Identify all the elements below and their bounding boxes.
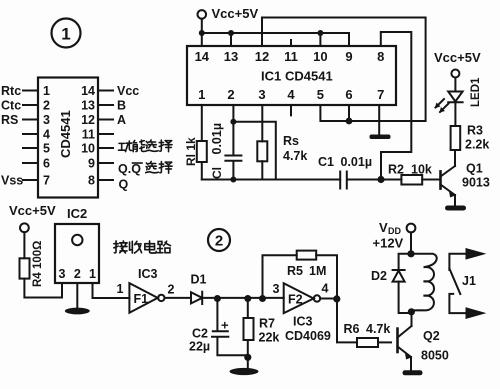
pinout signal labels Rtc Ctc RS Vss xyxy=(1,84,23,188)
label Q Qbar select xyxy=(118,162,141,176)
ground (IC1 pin7) xyxy=(370,135,391,140)
svg-text:22k: 22k xyxy=(259,331,280,345)
svg-text:11: 11 xyxy=(284,49,298,64)
circled numeral 2 xyxy=(208,229,230,251)
svg-text:Vcc+5V: Vcc+5V xyxy=(212,6,259,21)
ground (IC2 pin2) xyxy=(65,308,90,315)
resistor R2 xyxy=(381,163,439,185)
svg-text:IC2: IC2 xyxy=(67,206,87,221)
op IC1 CD4541 body xyxy=(187,46,396,105)
wire pin12 to pins 5,6 loop xyxy=(262,18,426,122)
svg-text:Ctc: Ctc xyxy=(1,99,21,113)
label jieshoudianlu (receiver circuit) xyxy=(114,241,171,253)
ground (Q2 emitter) xyxy=(403,370,423,375)
wire R1 bottom to rail xyxy=(201,162,203,180)
relay contact J1 xyxy=(449,249,484,319)
svg-text:5: 5 xyxy=(317,87,324,102)
Vcc+5V terminal (bottom left) xyxy=(9,203,56,232)
svg-text:R4: R4 xyxy=(32,272,44,287)
inverter F2 (IC3 CD4069) xyxy=(284,283,331,343)
svg-text:Rs: Rs xyxy=(283,134,299,148)
svg-text:R3: R3 xyxy=(467,124,483,138)
IC2 pin numbers 3 2 1 xyxy=(59,267,97,281)
svg-text:1: 1 xyxy=(117,282,124,296)
svg-text:2.2k: 2.2k xyxy=(465,138,489,152)
pinout pin numbers left 1-7 xyxy=(43,84,50,188)
circled numeral 1 xyxy=(52,19,81,48)
svg-text:10: 10 xyxy=(81,142,95,156)
junction dot relay top xyxy=(407,250,414,257)
svg-text:D1: D1 xyxy=(191,273,207,287)
svg-text:2: 2 xyxy=(168,283,175,297)
svg-text:12: 12 xyxy=(81,113,95,127)
svg-text:2: 2 xyxy=(43,99,50,113)
svg-text:C1: C1 xyxy=(318,155,334,169)
wire pin8 to R2 node xyxy=(381,32,412,180)
pinout right labels Vcc B A Q xyxy=(117,84,139,192)
ground (Q1 emitter) xyxy=(445,206,466,211)
svg-text:8: 8 xyxy=(377,49,384,64)
pinout pin numbers right 14-8 xyxy=(81,84,95,188)
svg-text:5: 5 xyxy=(43,142,50,156)
svg-text:9: 9 xyxy=(88,157,95,171)
svg-text:2: 2 xyxy=(74,267,81,281)
diode D1 xyxy=(191,273,207,305)
junction dot pin2 xyxy=(230,119,236,125)
svg-text:Vcc+5V: Vcc+5V xyxy=(434,50,481,65)
wire Rs bottom / bottom rail xyxy=(202,161,340,179)
svg-text:CD4069: CD4069 xyxy=(285,329,331,343)
svg-text:4.7k: 4.7k xyxy=(283,149,307,163)
svg-text:0.01µ: 0.01µ xyxy=(341,155,373,169)
svg-text:13: 13 xyxy=(81,99,95,113)
svg-text:V: V xyxy=(379,220,388,235)
svg-text:8: 8 xyxy=(88,174,95,188)
svg-text:CD4541: CD4541 xyxy=(285,69,333,84)
svg-text:R5: R5 xyxy=(287,264,303,278)
transistor Q2 xyxy=(398,312,449,371)
svg-text:9013: 9013 xyxy=(462,176,490,190)
pin labels 3 4 xyxy=(273,282,329,297)
svg-text:CD4541: CD4541 xyxy=(58,110,73,158)
resistor R3 xyxy=(451,124,490,152)
capacitor C2 electrolytic xyxy=(189,299,248,356)
wire pin3 to Rs xyxy=(261,105,263,141)
svg-text:14: 14 xyxy=(81,84,95,98)
resistor R7 xyxy=(244,299,280,358)
junction dot relay bottom xyxy=(408,308,415,315)
svg-text:1: 1 xyxy=(43,84,50,98)
svg-text:3: 3 xyxy=(43,113,50,127)
svg-text:Q: Q xyxy=(119,178,129,192)
svg-text:6: 6 xyxy=(43,157,50,171)
svg-text:22µ: 22µ xyxy=(189,340,210,354)
pinout right pin stubs xyxy=(98,91,113,181)
svg-text:8050: 8050 xyxy=(421,349,449,363)
LED1 xyxy=(436,77,483,126)
svg-text:1: 1 xyxy=(198,87,205,102)
svg-text:+12V: +12V xyxy=(373,236,404,251)
svg-text:IC1: IC1 xyxy=(261,69,281,84)
svg-text:9: 9 xyxy=(345,49,352,64)
wire pin1 to R1 xyxy=(201,105,203,141)
svg-text:F1: F1 xyxy=(134,292,149,306)
wire pin2 node xyxy=(233,105,275,180)
svg-text:Vss: Vss xyxy=(1,174,23,188)
svg-text:D2: D2 xyxy=(371,269,387,283)
wire VDD to relay top xyxy=(410,232,412,253)
inverter F1 (IC3) xyxy=(129,267,164,313)
Vcc+5V terminal (top middle) xyxy=(198,6,259,21)
junction dot F2 out xyxy=(333,295,340,302)
svg-text:R6: R6 xyxy=(344,322,360,336)
svg-text:1M: 1M xyxy=(309,264,326,278)
junction dots on node xyxy=(214,295,266,302)
svg-text:Cl: Cl xyxy=(210,167,224,179)
svg-text:Vcc+5V: Vcc+5V xyxy=(9,203,56,218)
resistor Rs xyxy=(257,134,307,163)
svg-text:1: 1 xyxy=(61,25,70,44)
relay coil J1 xyxy=(411,254,436,311)
svg-text:1: 1 xyxy=(89,267,96,281)
svg-text:0.01µ: 0.01µ xyxy=(210,123,224,155)
wire F2 out xyxy=(320,299,357,343)
svg-text:B: B xyxy=(117,99,126,113)
capacitor C1 xyxy=(318,155,381,189)
wire D1 to F2 input xyxy=(202,297,284,299)
Vcc+5V terminal (top right) xyxy=(434,50,481,78)
svg-text:13: 13 xyxy=(224,49,238,64)
resistor R6 xyxy=(344,322,392,347)
capacitor Cl xyxy=(210,123,241,180)
feedback wire to R5 xyxy=(263,255,338,299)
IC1 bottom pin numbers xyxy=(198,87,384,102)
junction dot node R2 xyxy=(377,176,384,183)
svg-text:2: 2 xyxy=(215,233,223,250)
svg-text:A: A xyxy=(117,113,126,127)
pin labels 1 2 xyxy=(117,282,175,297)
svg-text:LED1: LED1 xyxy=(470,77,482,107)
IC2 receiver module xyxy=(55,206,99,283)
label gongnengxuanze (function select) xyxy=(119,140,173,152)
svg-text:IC3: IC3 xyxy=(293,315,313,329)
svg-text:C2: C2 xyxy=(192,327,208,341)
svg-text:10k: 10k xyxy=(411,163,432,177)
wire F1 out to D1 xyxy=(165,297,192,299)
svg-text:100Ω: 100Ω xyxy=(32,241,44,269)
svg-text:3: 3 xyxy=(258,87,265,102)
svg-text:J1: J1 xyxy=(462,274,476,288)
pinout left pin stubs xyxy=(23,91,38,181)
wire pin7 to ground xyxy=(378,105,380,135)
IC pinout block CD4541 (left diagram) xyxy=(38,78,98,198)
junction dot C2/R7 bottom xyxy=(244,354,251,361)
diode D2 xyxy=(371,254,411,313)
svg-text:Q.Q: Q.Q xyxy=(118,162,141,176)
svg-text:Rtc: Rtc xyxy=(1,84,21,98)
wire IC2 pin1 to F1 xyxy=(93,297,130,299)
resistor R5 xyxy=(287,251,326,278)
resistor R4 xyxy=(20,232,63,297)
ground (C2/R7) xyxy=(230,357,259,375)
svg-text:14: 14 xyxy=(195,49,210,64)
svg-text:Vcc: Vcc xyxy=(117,84,139,98)
wire Vcc rail to pins 14 13 10 9 xyxy=(202,19,349,46)
IC1 top pin numbers xyxy=(195,49,385,64)
svg-text:IC3: IC3 xyxy=(138,267,158,281)
IC2 pin stubs xyxy=(62,283,93,308)
pin 11 stub xyxy=(290,40,292,46)
svg-text:4: 4 xyxy=(43,128,50,142)
svg-text:R2: R2 xyxy=(388,163,404,177)
svg-text:3: 3 xyxy=(273,282,280,296)
junction dots pins 5,6 xyxy=(346,118,353,125)
svg-text:11: 11 xyxy=(82,128,95,142)
svg-text:R7: R7 xyxy=(259,317,275,331)
junction dots on Vcc rail xyxy=(199,30,324,36)
wire relay bottom to Q2 collector xyxy=(410,310,412,311)
svg-text:Rl 1k: Rl 1k xyxy=(184,137,198,166)
svg-text:10: 10 xyxy=(313,49,327,64)
transistor Q1 xyxy=(441,150,490,206)
svg-text:F2: F2 xyxy=(288,293,303,307)
svg-text:7: 7 xyxy=(377,87,384,102)
svg-text:7: 7 xyxy=(43,174,50,188)
svg-text:DD: DD xyxy=(388,226,401,236)
resistor R1 xyxy=(184,137,207,166)
svg-text:6: 6 xyxy=(345,87,352,102)
svg-text:RS: RS xyxy=(1,113,18,127)
svg-text:4.7k: 4.7k xyxy=(366,322,390,336)
svg-text:3: 3 xyxy=(59,267,66,281)
VDD terminal xyxy=(373,220,416,251)
svg-text:2: 2 xyxy=(227,87,234,102)
svg-text:12: 12 xyxy=(255,49,269,64)
svg-text:4: 4 xyxy=(322,282,329,296)
junction dot Cl bottom xyxy=(230,177,236,183)
svg-text:Q2: Q2 xyxy=(423,329,440,343)
svg-text:Q1: Q1 xyxy=(466,162,483,176)
svg-text:4: 4 xyxy=(287,87,295,102)
